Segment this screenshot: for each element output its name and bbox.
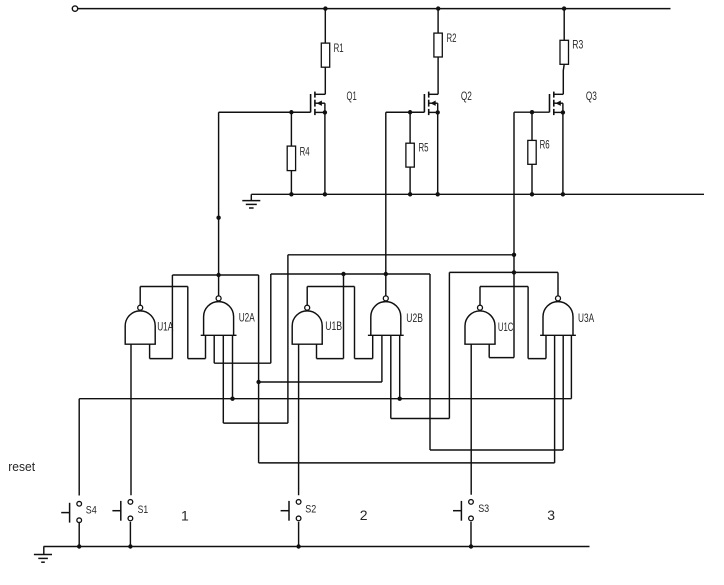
svg-text:U1C: U1C: [498, 320, 514, 334]
junction Q3 source: [561, 110, 565, 114]
junction S1 ground rail: [128, 544, 132, 548]
svg-text:U3A: U3A: [578, 311, 594, 325]
wire R5 to mid rail: [409, 167, 411, 194]
wire Q3 source to mid rail: [562, 112, 564, 194]
wire R4 top: [290, 112, 292, 146]
svg-text:S2: S2: [305, 503, 316, 515]
svg-text:U1B: U1B: [325, 319, 342, 333]
nand gate U1C: [464, 305, 495, 344]
svg-text:R6: R6: [540, 138, 550, 152]
wire Q3 gate to U1C pin2: [489, 357, 514, 359]
svg-text:R5: R5: [419, 141, 429, 155]
ground bottom rail: [34, 547, 52, 563]
nand gate U2A: [201, 296, 237, 335]
transistor Q3: [550, 92, 564, 116]
wire U2B pin2: [381, 335, 383, 382]
wire S3 to ground rail: [470, 522, 472, 547]
wire U2A pin2: [213, 335, 215, 363]
wire U1B output to U2B pin1: [355, 358, 373, 360]
junction Q2 source: [436, 110, 440, 114]
wire Q3 gate feedback down: [513, 112, 515, 357]
wire U1A pin2: [149, 344, 151, 358]
wire U1B output down: [354, 287, 356, 359]
wire R4 to mid rail: [290, 171, 292, 195]
wire S4 to ground rail: [78, 522, 80, 547]
svg-text:reset: reset: [8, 460, 35, 474]
wire reset net: [79, 398, 571, 400]
wire U1B pin2: [316, 344, 318, 358]
resistor R6: [528, 140, 536, 164]
wire U2B pin1: [372, 335, 374, 358]
wire U1A pin2 across: [150, 358, 173, 360]
junction gate R5: [408, 110, 412, 114]
wire U2B pin4: [399, 335, 401, 398]
junction pair2 feedback: [341, 272, 345, 276]
resistor R4: [287, 146, 295, 171]
wire U1A output down: [187, 287, 189, 359]
svg-text:Q2: Q2: [461, 89, 472, 103]
junction Q2 source mid rail: [436, 192, 440, 196]
wire top rail to R2: [437, 9, 439, 33]
svg-text:1: 1: [181, 508, 189, 524]
junction Q3 gate pair3 wire: [512, 270, 516, 274]
wire Q1 gate lead: [219, 111, 311, 113]
wire U1C pin2: [488, 344, 490, 357]
wire U2A pin2 across: [214, 362, 271, 364]
wire Q2 source to mid rail: [437, 112, 439, 194]
junction U2B pin4 reset: [398, 397, 402, 401]
wire pair1 net: [172, 274, 258, 276]
wire bottom ground rail: [44, 546, 590, 548]
wire R5 top: [409, 112, 411, 143]
junction top rail R3: [562, 6, 566, 10]
junction gate R6: [530, 110, 534, 114]
wire U3A pin3 down: [562, 335, 564, 450]
svg-text:R3: R3: [572, 38, 583, 52]
wire R1 to Q1 drain: [324, 67, 326, 94]
svg-text:R1: R1: [334, 41, 344, 55]
svg-text:Q1: Q1: [347, 89, 357, 103]
svg-text:Q3: Q3: [586, 89, 597, 103]
junction S4 ground rail: [77, 544, 81, 548]
wire Q3 gate lead: [514, 111, 550, 113]
wire U1B pin1 to S2: [298, 344, 300, 495]
resistor R3: [560, 40, 569, 64]
wire top supply rail: [78, 8, 671, 10]
wire U1A output to U2A pin1: [188, 358, 206, 360]
junction R5 mid rail: [408, 192, 412, 196]
nand gate U1A: [125, 305, 156, 344]
svg-text:2: 2: [360, 507, 368, 523]
nand gate U1B: [292, 305, 323, 344]
junction top rail R1: [323, 6, 327, 10]
junction Q3 source mid rail: [561, 192, 565, 196]
wire pair2 to U3A pin3: [430, 449, 563, 451]
svg-text:U2A: U2A: [239, 311, 255, 325]
wire U2B output to Q2 gate: [385, 112, 387, 295]
junction gate R4: [289, 110, 293, 114]
wire U3A pin4 down: [570, 335, 572, 398]
wire U1C output down: [527, 287, 529, 359]
wire R3 to Q3 drain: [562, 64, 565, 94]
wire U2A output branch down: [258, 275, 260, 463]
junction S2 ground rail: [296, 544, 300, 548]
junction crosslink Q3 gate: [512, 253, 516, 257]
wire R6 to mid rail: [531, 164, 533, 194]
switch S3: [453, 500, 473, 521]
wire U3A output up: [557, 272, 559, 295]
wire U1A output across: [140, 286, 188, 288]
wire reset to S4: [78, 399, 80, 496]
wire U3A pin2 down: [554, 335, 556, 463]
switch S2: [281, 500, 301, 521]
wire U1C output to U3A pin1: [528, 358, 546, 360]
wire U1B output up: [306, 287, 308, 306]
junction R6 mid rail: [530, 192, 534, 196]
wire S2 to ground rail: [298, 522, 300, 547]
wire U2A pin3: [222, 335, 224, 423]
junction U2A pin4 reset: [230, 397, 234, 401]
svg-text:U1A: U1A: [157, 320, 173, 334]
svg-text:S4: S4: [86, 504, 97, 516]
wire pair3 net left leg: [448, 272, 450, 418]
wire U2A pin4: [232, 335, 234, 398]
wire pair2 right leg down: [429, 274, 431, 450]
wire branch to U2B pin2: [259, 381, 382, 383]
wire U2A pin3 across: [223, 422, 288, 424]
nand gate U2B: [368, 296, 404, 335]
wire U2A pin1: [205, 335, 207, 358]
node VCC input terminal: [72, 6, 77, 11]
wire S1 to ground rail: [129, 522, 131, 547]
wire U1C output across: [480, 286, 528, 288]
wire U1C pin1 to S3: [470, 344, 472, 495]
switch S4: [61, 501, 81, 522]
wire pair2 net left leg: [270, 274, 272, 363]
junction node A on U2A output: [216, 216, 220, 220]
wire U2A output to Q1 gate: [218, 112, 220, 295]
junction U2A output pair1 wire: [216, 273, 220, 277]
wire U1B output across: [307, 286, 354, 288]
wire U3A pin1: [545, 335, 547, 358]
junction top rail R2: [436, 6, 440, 10]
resistor R1: [321, 43, 329, 67]
wire U1A output up: [139, 287, 141, 306]
wire U2A branch bottom: [259, 462, 555, 464]
junction branch to U2B pin2: [256, 380, 260, 384]
wire U2B pin3 across: [391, 418, 450, 420]
wire Q2 gate lead: [386, 111, 425, 113]
wire U1A pin1 to S1: [130, 344, 132, 495]
transistor Q1: [311, 92, 326, 116]
wire pair2 net: [271, 273, 430, 275]
svg-text:R2: R2: [447, 31, 457, 45]
junction R4 mid rail: [289, 192, 293, 196]
wire pair2 feedback up: [343, 274, 345, 359]
junction S3 ground rail: [469, 544, 473, 548]
wire mid ground rail: [251, 193, 704, 195]
junction U2B output pair2 wire: [384, 272, 388, 276]
wire pair3 net: [449, 271, 558, 273]
wire crosslink to Q3 gate: [288, 254, 514, 256]
wire R6 top: [531, 112, 533, 140]
resistor R5: [406, 143, 414, 167]
transistor Q2: [424, 92, 438, 116]
svg-text:S3: S3: [478, 503, 489, 515]
svg-text:U2B: U2B: [406, 311, 423, 325]
svg-text:3: 3: [547, 507, 555, 523]
svg-text:S1: S1: [138, 504, 149, 516]
wire top rail to R3: [563, 9, 565, 41]
wire pair1 feedback up: [171, 275, 173, 359]
wire U1C output up: [479, 287, 481, 306]
ground mid rail: [242, 194, 260, 208]
wire U1B pin2 across: [317, 358, 344, 360]
wire pair3 link up: [287, 255, 289, 423]
switch S1: [112, 500, 132, 521]
nand gate U3A: [540, 296, 576, 335]
wire Q1 source to mid rail: [324, 112, 326, 194]
junction Q1 source mid rail: [323, 192, 327, 196]
junction Q1 source: [323, 110, 327, 114]
wire top rail to R1: [324, 9, 326, 44]
svg-text:R4: R4: [300, 145, 310, 159]
wire U2B pin3: [390, 335, 392, 418]
resistor R2: [434, 33, 442, 57]
wire R2 to Q2 drain: [437, 57, 439, 94]
